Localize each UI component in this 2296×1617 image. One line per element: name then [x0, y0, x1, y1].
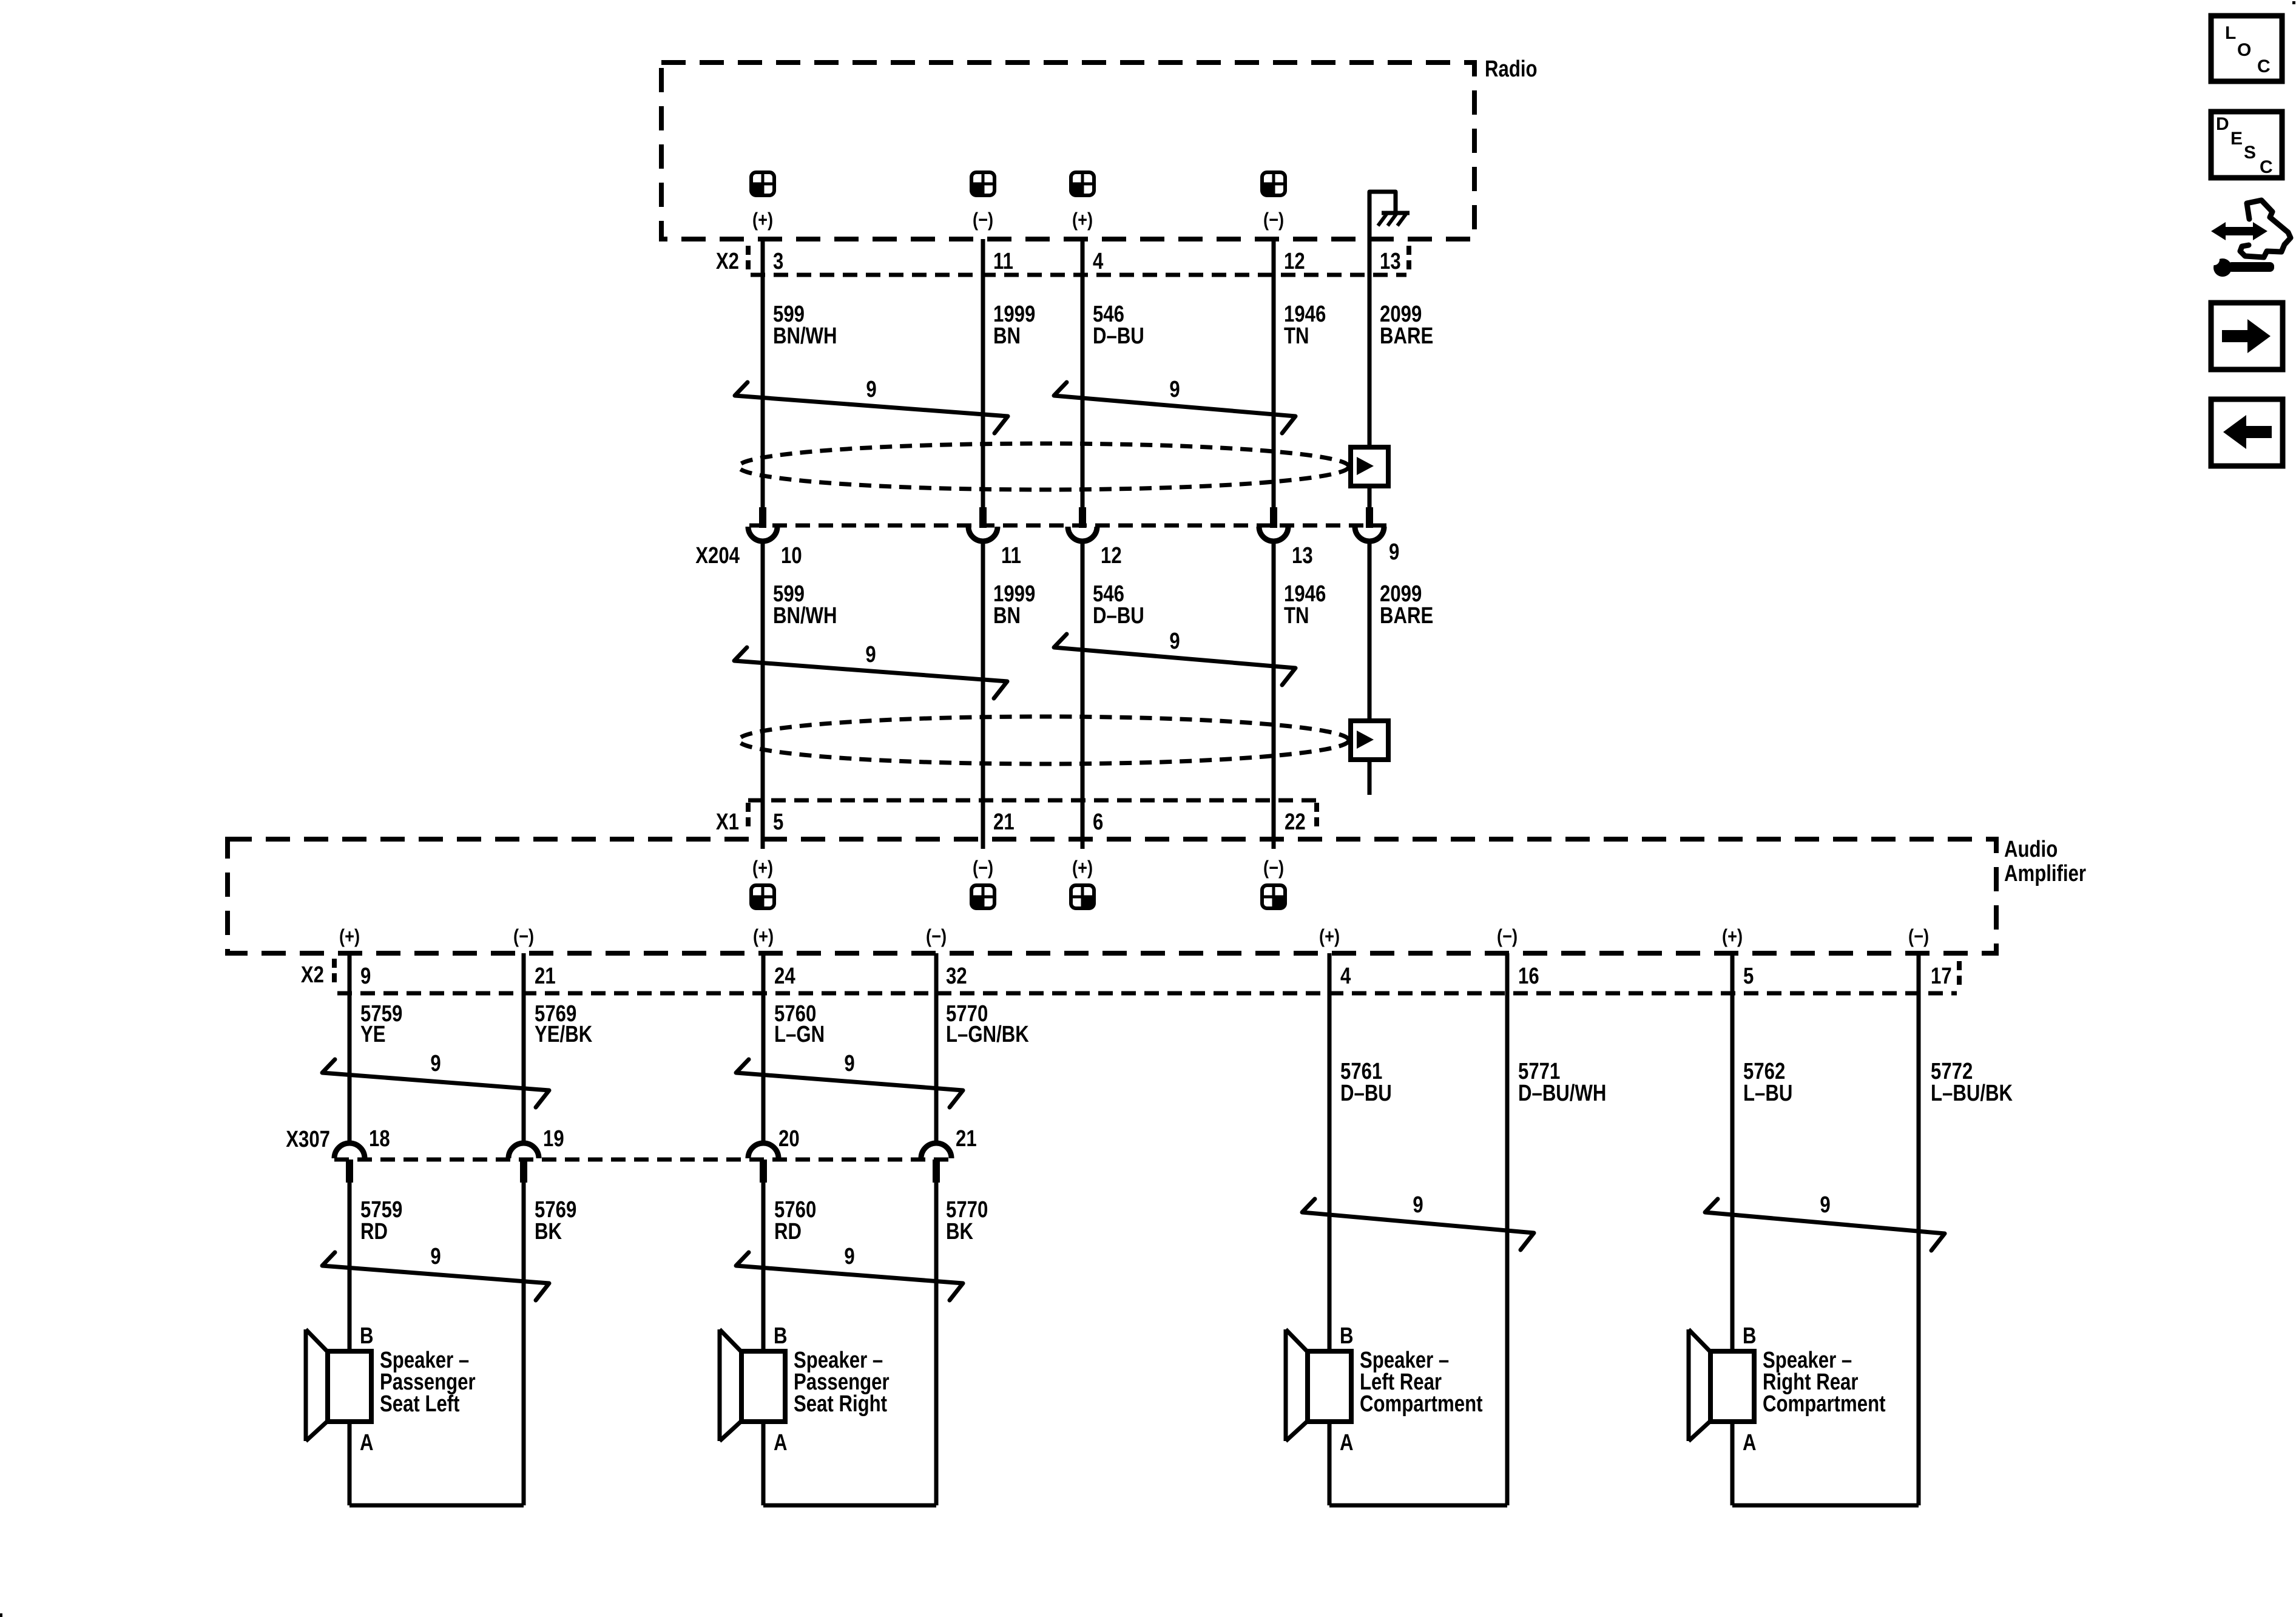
svg-text:9: 9: [1389, 539, 1399, 565]
svg-text:17: 17: [1931, 964, 1952, 989]
connector X204 dashed line: [749, 524, 1389, 528]
svg-text:A: A: [774, 1430, 788, 1456]
wire 1999 BN X204 to amplifier X1: [981, 541, 985, 849]
svg-text:BARE: BARE: [1380, 323, 1433, 349]
svg-text:L–BU: L–BU: [1743, 1081, 1792, 1106]
wire 5760 RD X307 to front speaker: [761, 1183, 766, 1351]
svg-text:13: 13: [1292, 543, 1313, 569]
speaker Passenger Seat Left: driver rectangle: [328, 1351, 371, 1422]
svg-text:21: 21: [956, 1126, 977, 1152]
svg-text:C: C: [2260, 157, 2273, 177]
wire 5762 L-BU amplifier to rear speaker: [1730, 953, 1735, 1351]
wire 5772 L-BU/BK amplifier to rear speaker: [1917, 953, 1921, 1505]
wire 5759 YE amplifier to X307: [348, 953, 352, 1143]
svg-text:(−): (−): [513, 926, 534, 948]
svg-text:4: 4: [1340, 964, 1351, 989]
svg-text:C: C: [2257, 56, 2271, 76]
sidebar icon DESC: [2211, 112, 2282, 178]
svg-text:TN: TN: [1284, 603, 1309, 629]
speaker Left Rear Compartment: driver rectangle: [1308, 1351, 1351, 1422]
svg-text:Amplifier: Amplifier: [2004, 861, 2086, 886]
svg-text:X2: X2: [716, 249, 739, 274]
svg-text:BK: BK: [535, 1219, 562, 1244]
svg-text:D–BU: D–BU: [1093, 603, 1144, 629]
svg-text:BN: BN: [993, 323, 1021, 349]
svg-text:O: O: [2237, 40, 2251, 60]
amplifier input connector icon, radio wire 1: [751, 897, 763, 908]
svg-text:9: 9: [1169, 629, 1180, 654]
amplifier input connector icon, radio wire 3: [1082, 897, 1094, 908]
X307 terminal pin 19: [508, 1143, 539, 1158]
svg-text:BN/WH: BN/WH: [773, 603, 837, 629]
svg-text:B: B: [360, 1323, 374, 1349]
shield ellipse (upper): [738, 444, 1349, 490]
wire 5759 RD X307 to front speaker: [348, 1183, 352, 1351]
twisted pair marker 9 (amp wires 5-6): [1302, 1199, 1534, 1250]
svg-text:TN: TN: [1284, 323, 1309, 349]
svg-text:19: 19: [543, 1126, 564, 1152]
speaker Left Rear Compartment: cone symbol: [1284, 1329, 1288, 1441]
radio internal connector icon, wire 1: [751, 184, 763, 195]
connector X307 dashed line: [334, 1158, 951, 1162]
svg-text:18: 18: [369, 1126, 390, 1152]
svg-text:BN/WH: BN/WH: [773, 323, 837, 349]
twisted pair marker 9 (radio wires 1-2): [735, 382, 1008, 433]
shield drain junction box (upper): [1351, 447, 1388, 486]
X307 terminal pin 20: [748, 1143, 778, 1158]
wire 5760 L-GN amplifier to X307: [761, 953, 766, 1143]
svg-text:11: 11: [1001, 543, 1021, 569]
svg-text:16: 16: [1518, 964, 1539, 989]
svg-text:(−): (−): [1263, 209, 1284, 231]
radio internal connector icon, wire 2: [971, 184, 983, 195]
shield drain junction box (lower): [1351, 721, 1388, 760]
svg-text:A: A: [1743, 1430, 1757, 1456]
speaker Passenger Seat Left: cone symbol: [304, 1329, 308, 1441]
svg-text:X307: X307: [286, 1127, 330, 1152]
svg-text:(+): (+): [1072, 209, 1093, 231]
wire 546 D-BU radio X2 to X204: [1081, 239, 1085, 507]
svg-text:B: B: [774, 1323, 788, 1349]
sidebar icon: back arrow: [2211, 399, 2283, 466]
wire 2099 BARE X204 to X1 area: [1368, 541, 1372, 795]
svg-text:YE/BK: YE/BK: [535, 1022, 592, 1047]
svg-text:12: 12: [1101, 543, 1122, 569]
twisted pair marker 9 (radio wires 3-4): [1054, 382, 1295, 433]
svg-text:9: 9: [430, 1244, 441, 1269]
twisted pair marker 9 (amp wires 7-8): [1705, 1199, 1945, 1251]
twisted pair marker 9 (mid wires 3-4): [1054, 634, 1295, 685]
wire 546 D-BU X204 to amplifier X1: [1081, 541, 1085, 849]
svg-text:9: 9: [1413, 1192, 1423, 1218]
connector X2 (radio) dashed pin row: [746, 246, 751, 274]
svg-text:(+): (+): [1072, 857, 1093, 879]
svg-text:BARE: BARE: [1380, 603, 1433, 629]
speaker Passenger Seat Left: return loop wire: [349, 1504, 524, 1508]
svg-text:12: 12: [1284, 249, 1305, 274]
svg-text:(+): (+): [753, 926, 774, 948]
radio internal connector icon, wire 3: [1071, 184, 1082, 195]
svg-text:(+): (+): [752, 209, 773, 231]
wire 1999 BN radio X2 to X204: [981, 239, 985, 507]
svg-text:9: 9: [1169, 377, 1180, 402]
svg-text:BN: BN: [993, 603, 1021, 629]
svg-text:X1: X1: [716, 809, 739, 835]
svg-text:11: 11: [993, 249, 1013, 274]
svg-text:YE: YE: [360, 1022, 386, 1047]
svg-text:24: 24: [774, 964, 795, 989]
svg-text:9: 9: [844, 1244, 854, 1269]
svg-text:(+): (+): [1319, 926, 1340, 948]
svg-text:(−): (−): [1908, 926, 1929, 948]
wire 2099 BARE radio ground to X204: [1368, 192, 1372, 507]
svg-text:6: 6: [1093, 809, 1103, 835]
wire 599 BN/WH radio X2 to X204: [761, 239, 765, 507]
ground symbol inside radio (pin 13 shield): [1369, 192, 1396, 213]
svg-text:A: A: [1340, 1430, 1354, 1456]
svg-text:(+): (+): [752, 857, 773, 879]
svg-text:X204: X204: [695, 543, 740, 569]
svg-text:RD: RD: [774, 1219, 802, 1244]
svg-text:9: 9: [1820, 1192, 1830, 1218]
svg-text:5: 5: [773, 809, 783, 835]
svg-text:21: 21: [535, 964, 556, 989]
svg-text:Audio: Audio: [2004, 837, 2058, 862]
sidebar icon LOC: [2211, 16, 2282, 81]
speaker Passenger Seat Right: cone symbol: [718, 1329, 722, 1441]
X204 terminal pin 11: [979, 507, 987, 528]
sidebar icon: forward arrow: [2211, 303, 2283, 370]
wire 5769 YE/BK amplifier to X307: [522, 953, 526, 1143]
speaker Passenger Seat Right: driver rectangle: [741, 1351, 785, 1422]
svg-text:9: 9: [360, 964, 371, 989]
svg-text:Compartment: Compartment: [1360, 1391, 1483, 1417]
svg-text:9: 9: [430, 1051, 441, 1076]
speaker Passenger Seat Right: return loop wire: [763, 1504, 936, 1508]
wire 5761 D-BU amplifier to rear speaker: [1328, 953, 1332, 1351]
twisted pair marker 9 (mid wires 1-2): [734, 647, 1007, 698]
svg-text:L–GN/BK: L–GN/BK: [946, 1022, 1029, 1047]
wire 5771 D-BU/WH amplifier to rear speaker: [1505, 953, 1510, 1505]
wire 5769 BK X307 to front speaker: [522, 1183, 526, 1505]
svg-text:9: 9: [844, 1051, 854, 1076]
svg-text:Seat Left: Seat Left: [380, 1391, 460, 1417]
svg-text:D–BU: D–BU: [1340, 1081, 1392, 1106]
svg-text:(−): (−): [1263, 857, 1284, 879]
speaker Right Rear Compartment: return loop wire: [1732, 1504, 1919, 1508]
wire 5770 L-GN/BK amplifier to X307: [934, 953, 939, 1143]
twisted pair marker 9 (speaker wires 1-2): [322, 1252, 549, 1300]
svg-text:(−): (−): [926, 926, 947, 948]
X204 terminal pin 10: [759, 507, 766, 528]
svg-text:10: 10: [781, 543, 802, 569]
wire 1946 TN radio X2 to X204: [1272, 239, 1276, 507]
svg-text:21: 21: [993, 809, 1015, 835]
svg-text:9: 9: [866, 377, 876, 402]
audio amplifier: dashed component outline: [228, 839, 1996, 953]
svg-text:E: E: [2230, 129, 2243, 149]
svg-text:BK: BK: [946, 1219, 973, 1244]
page artifact marks: [2292, 1, 2295, 4]
svg-text:20: 20: [778, 1126, 800, 1152]
shield ellipse (lower): [738, 717, 1349, 764]
svg-text:32: 32: [946, 964, 967, 989]
wire 599 BN/WH X204 to amplifier X1: [761, 541, 765, 849]
svg-text:Radio: Radio: [1485, 56, 1538, 82]
svg-text:S: S: [2244, 143, 2256, 163]
radio internal connector icon, wire 4: [1262, 184, 1274, 195]
svg-text:(−): (−): [1497, 926, 1518, 948]
twisted pair marker 9 (amp wires 1-2): [322, 1059, 549, 1107]
svg-text:X2: X2: [301, 962, 324, 988]
svg-text:13: 13: [1380, 249, 1401, 274]
svg-text:(+): (+): [339, 926, 360, 948]
speaker Left Rear Compartment: return loop wire: [1329, 1504, 1507, 1508]
svg-text:D: D: [2216, 114, 2229, 134]
svg-text:L–BU/BK: L–BU/BK: [1931, 1081, 2013, 1106]
svg-text:A: A: [360, 1430, 374, 1456]
sidebar icon: hand with double arrow and wrench: [2211, 222, 2267, 240]
svg-text:B: B: [1743, 1323, 1757, 1349]
svg-text:3: 3: [773, 249, 783, 274]
svg-text:4: 4: [1093, 249, 1104, 274]
twisted pair marker 9 (amp wires 3-4): [736, 1059, 963, 1107]
svg-text:L–GN: L–GN: [774, 1022, 825, 1047]
svg-text:D–BU/WH: D–BU/WH: [1518, 1081, 1606, 1106]
svg-text:L: L: [2225, 23, 2236, 43]
svg-text:22: 22: [1285, 809, 1306, 835]
svg-text:Compartment: Compartment: [1763, 1391, 1886, 1417]
connector X2 (amplifier) dashed pin row: [332, 959, 337, 987]
wire 1946 TN X204 to amplifier X1: [1272, 541, 1276, 849]
svg-text:(−): (−): [973, 209, 993, 231]
X204 terminal pin 12: [1079, 507, 1086, 528]
svg-text:RD: RD: [360, 1219, 388, 1244]
amplifier input connector icon, radio wire 4: [1274, 897, 1285, 908]
X204 terminal pin 13: [1270, 507, 1277, 528]
svg-text:B: B: [1340, 1323, 1354, 1349]
speaker Right Rear Compartment: driver rectangle: [1710, 1351, 1754, 1422]
svg-text:D–BU: D–BU: [1093, 323, 1144, 349]
X307 terminal pin 18: [334, 1143, 365, 1158]
amplifier input connector icon, radio wire 2: [971, 897, 983, 908]
svg-text:(−): (−): [973, 857, 993, 879]
svg-text:5: 5: [1743, 964, 1754, 989]
radio: dashed component outline: [661, 62, 1474, 239]
X307 terminal pin 21: [921, 1143, 951, 1158]
twisted pair marker 9 (speaker wires 3-4): [736, 1252, 963, 1300]
svg-text:(+): (+): [1722, 926, 1743, 948]
wire 5770 BK X307 to front speaker: [934, 1183, 939, 1505]
connector X1 dashed pin row: [748, 798, 1317, 803]
X204 terminal pin 9: [1366, 507, 1373, 528]
svg-text:Seat Right: Seat Right: [794, 1391, 887, 1417]
speaker Right Rear Compartment: cone symbol: [1687, 1329, 1691, 1441]
svg-text:9: 9: [865, 642, 876, 667]
